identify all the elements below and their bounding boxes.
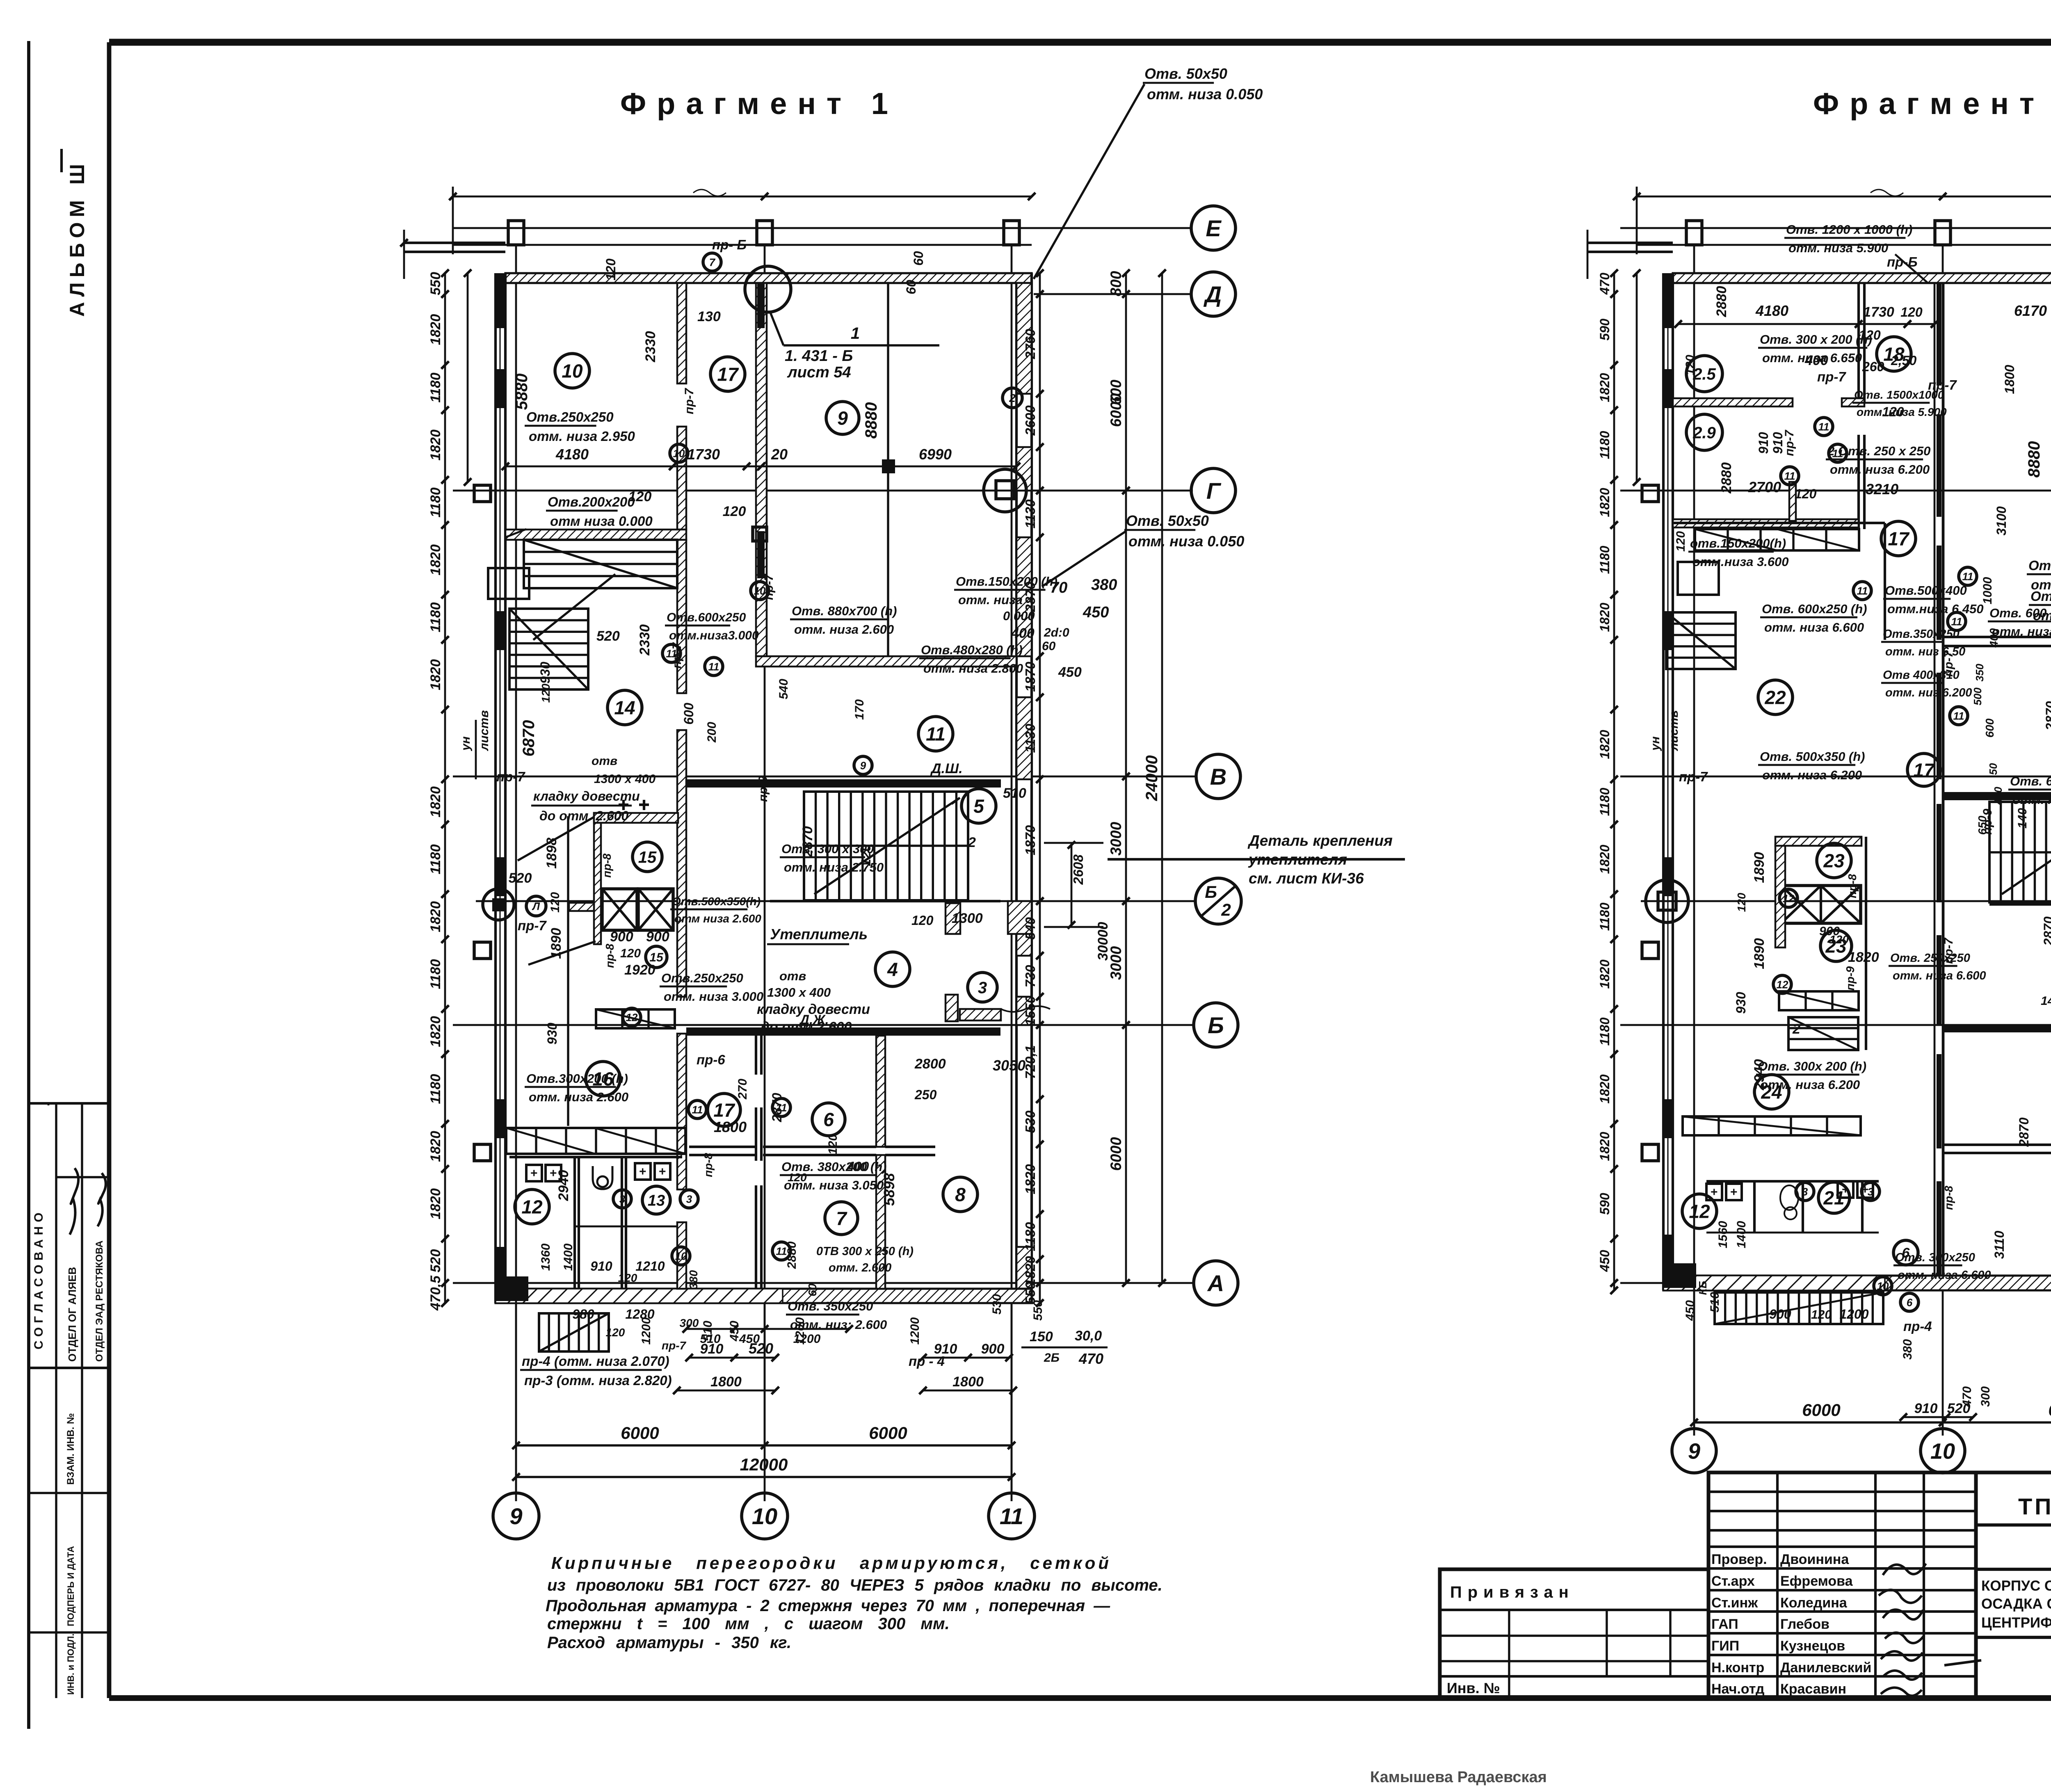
svg-text:2: 2 — [1009, 392, 1016, 404]
svg-text:1820: 1820 — [428, 544, 443, 575]
svg-text:3: 3 — [619, 1193, 626, 1205]
svg-text:1200: 1200 — [793, 1317, 807, 1345]
svg-text:до отм. 2.600: до отм. 2.600 — [539, 808, 629, 823]
svg-text:отм. низа 5.900: отм. низа 5.900 — [1788, 241, 1888, 255]
svg-text:ОТДЕЛ ОГ АЛЯЕВ: ОТДЕЛ ОГ АЛЯЕВ — [66, 1267, 78, 1362]
svg-text:10: 10 — [562, 361, 583, 382]
svg-text:120: 120 — [1900, 305, 1923, 320]
svg-text:пр-8: пр-8 — [601, 853, 613, 878]
svg-text:1920: 1920 — [624, 962, 655, 978]
svg-text:Отв. 600х250 (h): Отв. 600х250 (h) — [1762, 602, 1867, 616]
svg-text:ун: ун — [1649, 736, 1662, 751]
svg-text:Д: Д — [1204, 281, 1222, 307]
svg-text:2: 2 — [968, 835, 976, 850]
svg-text:1820: 1820 — [428, 1016, 443, 1047]
svg-text:530: 530 — [990, 1294, 1004, 1315]
svg-text:отм. низа: отм. низа — [958, 593, 1023, 607]
svg-text:Отв. 300 х 200 (h): Отв. 300 х 200 (h) — [1760, 332, 1872, 347]
svg-text:Отв. 250х250: Отв. 250х250 — [1890, 952, 1970, 965]
svg-text:отм.низа 6.450: отм.низа 6.450 — [1887, 602, 1984, 616]
svg-text:520: 520 — [509, 870, 532, 886]
svg-text:1820: 1820 — [428, 314, 443, 345]
svg-text:6000: 6000 — [1108, 393, 1124, 427]
svg-text:Отв. 50х50: Отв. 50х50 — [1144, 65, 1227, 82]
svg-text:Отв.300х200 (h): Отв.300х200 (h) — [526, 1071, 628, 1086]
svg-text:1400: 1400 — [562, 1243, 575, 1271]
svg-text:Ст.арх: Ст.арх — [1711, 1573, 1755, 1589]
svg-text:Отв.200х200: Отв.200х200 — [548, 494, 635, 509]
svg-text:утеплителя: утеплителя — [1248, 851, 1347, 868]
svg-text:4180: 4180 — [555, 446, 589, 463]
svg-text:380: 380 — [1901, 1339, 1914, 1360]
svg-text:980: 980 — [572, 1307, 594, 1322]
svg-text:1820: 1820 — [1597, 730, 1612, 759]
svg-text:120: 120 — [618, 1272, 637, 1284]
svg-text:пр-7: пр-7 — [762, 573, 776, 600]
svg-text:отм низа 0.000: отм низа 0.000 — [550, 514, 653, 529]
svg-text:540: 540 — [777, 679, 790, 699]
svg-text:пр-7: пр-7 — [683, 388, 696, 414]
svg-text:3: 3 — [1868, 1185, 1874, 1198]
svg-text:1820: 1820 — [428, 786, 443, 817]
svg-text:540: 540 — [1023, 917, 1038, 940]
svg-text:лист 54: лист 54 — [787, 364, 851, 381]
svg-text:отм. низа 0.050: отм. низа 0.050 — [1128, 533, 1244, 550]
svg-text:КБ: КБ — [1697, 1281, 1709, 1295]
svg-text:300: 300 — [1979, 1386, 1992, 1407]
svg-text:1200: 1200 — [1839, 1307, 1868, 1322]
svg-text:отм. низа 2.950: отм. низа 2.950 — [529, 429, 635, 444]
svg-text:Деталь крепления: Деталь крепления — [1247, 832, 1393, 849]
svg-text:2870: 2870 — [2043, 701, 2051, 730]
svg-text:6: 6 — [1907, 1296, 1913, 1308]
svg-text:Отв. 300х 200 (h): Отв. 300х 200 (h) — [1758, 1059, 1866, 1073]
svg-text:стержни t = 100 мм , с шагом 3: стержни t = 100 мм , с шагом 300 мм. — [547, 1615, 950, 1633]
svg-text:2,50: 2,50 — [1891, 353, 1916, 368]
svg-text:910: 910 — [1914, 1401, 1938, 1416]
svg-text:14: 14 — [614, 697, 635, 719]
svg-text:1870: 1870 — [1023, 662, 1038, 692]
svg-text:Отв.480х280 (h): Отв.480х280 (h) — [921, 643, 1023, 657]
svg-text:22: 22 — [1764, 687, 1786, 708]
svg-text:отм. низа 0.050: отм. низа 0.050 — [1147, 86, 1263, 103]
svg-text:1820: 1820 — [1597, 373, 1612, 402]
svg-text:отм. низа 6.550: отм. низа 6.550 — [1992, 624, 2051, 639]
svg-text:6000: 6000 — [2048, 1400, 2051, 1420]
svg-text:1000: 1000 — [1981, 577, 1994, 604]
svg-text:1180: 1180 — [428, 487, 443, 517]
svg-text:1890: 1890 — [1752, 938, 1767, 969]
svg-text:2870: 2870 — [800, 826, 815, 858]
svg-text:отм. низа 6.200: отм. низа 6.200 — [1762, 768, 1862, 782]
svg-text:пр-8: пр-8 — [702, 1153, 715, 1177]
svg-text:1180: 1180 — [1597, 431, 1612, 459]
svg-text:Е: Е — [1206, 215, 1222, 241]
svg-text:Отв.500х400: Отв.500х400 — [1885, 583, 1967, 598]
svg-text:Утеплитель: Утеплитель — [770, 926, 868, 943]
svg-text:450: 450 — [1597, 1250, 1612, 1272]
svg-text:1800: 1800 — [952, 1374, 984, 1390]
svg-text:4180: 4180 — [1755, 302, 1788, 319]
svg-text:13: 13 — [648, 1192, 665, 1210]
svg-text:120: 120 — [1795, 486, 1817, 501]
svg-text:1820: 1820 — [1023, 1256, 1038, 1286]
svg-text:120: 120 — [548, 892, 562, 913]
svg-text:пр-7: пр-7 — [518, 918, 547, 933]
svg-text:пр-8: пр-8 — [603, 943, 616, 968]
svg-text:листв: листв — [477, 710, 491, 751]
svg-text:20: 20 — [771, 446, 788, 463]
svg-text:1800: 1800 — [2002, 365, 2017, 394]
svg-text:150: 150 — [1030, 1329, 1053, 1345]
svg-text:2870: 2870 — [770, 1093, 784, 1122]
svg-text:720,1: 720,1 — [1023, 1045, 1038, 1079]
svg-text:пр-7: пр-7 — [662, 1339, 687, 1352]
svg-text:отм низа 2.600: отм низа 2.600 — [674, 912, 761, 925]
svg-text:2.9: 2.9 — [1692, 424, 1716, 442]
svg-text:1200: 1200 — [908, 1317, 922, 1345]
svg-text:Отв.600х250: Отв.600х250 — [667, 611, 746, 624]
svg-text:1870: 1870 — [1023, 825, 1038, 855]
svg-text:400: 400 — [1987, 628, 2000, 648]
svg-text:пр-6: пр-6 — [697, 1052, 725, 1067]
svg-text:пр-7: пр-7 — [1679, 769, 1708, 784]
svg-text:отм. низа 6.200: отм. низа 6.200 — [1830, 462, 1930, 477]
svg-text:Отв.250х250: Отв.250х250 — [661, 971, 743, 985]
svg-text:17: 17 — [1888, 528, 1910, 550]
svg-text:350: 350 — [1973, 664, 1986, 682]
svg-text:1180: 1180 — [428, 372, 443, 402]
svg-text:1300 х 400: 1300 х 400 — [594, 772, 655, 786]
svg-text:5: 5 — [973, 796, 984, 817]
svg-text:2880: 2880 — [785, 1241, 799, 1269]
svg-text:пр-8: пр-8 — [1846, 874, 1859, 898]
svg-text:120: 120 — [1683, 355, 1697, 375]
svg-text:1820: 1820 — [1597, 603, 1612, 632]
svg-text:1800: 1800 — [714, 1119, 747, 1135]
svg-text:1560: 1560 — [1716, 1221, 1730, 1248]
svg-text:+: + — [1711, 1185, 1718, 1199]
svg-text:1130: 1130 — [1023, 724, 1038, 753]
svg-text:1820: 1820 — [428, 1131, 443, 1162]
svg-text:Отв. 350х250: Отв. 350х250 — [788, 1299, 873, 1313]
svg-text:10: 10 — [673, 447, 685, 459]
svg-text:1898: 1898 — [544, 838, 560, 869]
svg-text:3: 3 — [1802, 1185, 1808, 1198]
svg-text:1180: 1180 — [1597, 1017, 1612, 1046]
svg-text:отм. низа 6.500: отм. низа 6.500 — [2012, 792, 2051, 807]
svg-text:ПОДПЕРЬ И ДАТА: ПОДПЕРЬ И ДАТА — [66, 1546, 76, 1626]
svg-text:Б: Б — [1205, 882, 1217, 902]
svg-text:Отв.500х350(h): Отв.500х350(h) — [672, 895, 761, 908]
svg-text:Данилевский: Данилевский — [1780, 1660, 1871, 1676]
svg-text:900: 900 — [1819, 925, 1840, 938]
svg-text:120: 120 — [1674, 531, 1688, 552]
svg-text:отм. низа 6.200: отм. низа 6.200 — [1760, 1077, 1860, 1092]
svg-text:11: 11 — [1784, 470, 1795, 482]
svg-text:1: 1 — [851, 324, 860, 342]
svg-text:Б: Б — [1208, 1012, 1224, 1038]
svg-text:пр-3 (отм. низа 2.820): пр-3 (отм. низа 2.820) — [524, 1373, 672, 1388]
svg-text:2800: 2800 — [914, 1056, 946, 1072]
svg-text:пр-8: пр-8 — [1942, 1185, 1955, 1210]
svg-text:2880: 2880 — [1714, 286, 1729, 317]
svg-text:590: 590 — [1597, 1193, 1612, 1215]
svg-text:Камышева Радаевская: Камышева Радаевская — [1370, 1769, 1547, 1786]
svg-text:Фрагмент 1: Фрагмент 1 — [620, 87, 899, 121]
svg-text:Отв.350х250: Отв.350х250 — [1883, 628, 1960, 641]
svg-text:Инв. №: Инв. № — [1447, 1680, 1500, 1696]
svg-text:Расход арматуры - 350 кг.: Расход арматуры - 350 кг. — [547, 1634, 791, 1652]
svg-text:600: 600 — [681, 703, 696, 725]
svg-text:930: 930 — [538, 662, 553, 684]
svg-text:Кузнецов: Кузнецов — [1780, 1638, 1845, 1654]
svg-text:3000: 3000 — [1108, 822, 1124, 856]
svg-text:+: + — [1730, 1185, 1738, 1199]
svg-text:7: 7 — [709, 256, 716, 268]
svg-text:140: 140 — [2016, 808, 2029, 829]
svg-text:12: 12 — [1783, 892, 1795, 904]
svg-text:2940: 2940 — [556, 1170, 571, 1201]
svg-text:2880: 2880 — [1719, 462, 1734, 494]
svg-text:листв: листв — [1667, 710, 1681, 751]
svg-text:отм. 2.600: отм. 2.600 — [829, 1261, 891, 1274]
svg-text:6990: 6990 — [919, 446, 952, 463]
svg-text:400: 400 — [1992, 787, 2004, 805]
svg-text:1180: 1180 — [428, 844, 443, 874]
svg-text:отм. низа 2.600: отм. низа 2.600 — [794, 622, 894, 637]
svg-text:ОТДЕЛ ЭАД РЕСТЯКОВА: ОТДЕЛ ЭАД РЕСТЯКОВА — [94, 1240, 105, 1362]
svg-text:Привязан: Привязан — [1450, 1583, 1574, 1601]
svg-text:500: 500 — [1971, 687, 1984, 705]
svg-text:17: 17 — [713, 1100, 735, 1121]
svg-text:60: 60 — [904, 280, 918, 294]
svg-text:600: 600 — [1983, 718, 1996, 737]
svg-text:250: 250 — [914, 1087, 937, 1102]
svg-text:3: 3 — [978, 979, 987, 997]
svg-text:0ТВ 300 х 250 (h): 0ТВ 300 х 250 (h) — [816, 1245, 914, 1258]
svg-text:6000: 6000 — [1802, 1400, 1840, 1420]
svg-text:11: 11 — [1857, 584, 1868, 597]
svg-text:Коледина: Коледина — [1780, 1595, 1848, 1611]
svg-text:24000: 24000 — [1143, 755, 1161, 801]
svg-text:17: 17 — [717, 364, 739, 385]
svg-text:470: 470 — [1960, 1386, 1974, 1407]
svg-text:1730: 1730 — [687, 446, 720, 463]
svg-text:Отв. 500х350 (h): Отв. 500х350 (h) — [1760, 749, 1865, 764]
svg-text:2600: 2600 — [1023, 405, 1038, 436]
svg-text:6000: 6000 — [621, 1423, 659, 1443]
svg-text:1820: 1820 — [1597, 959, 1612, 988]
svg-text:270: 270 — [736, 1079, 749, 1100]
svg-text:пр-7: пр-7 — [496, 769, 525, 784]
svg-text:отв.150х200(h): отв.150х200(h) — [1690, 536, 1786, 550]
svg-text:отм. низа 2.800: отм. низа 2.800 — [923, 661, 1023, 676]
svg-text:1180: 1180 — [428, 1074, 443, 1104]
svg-text:550: 550 — [1023, 1281, 1038, 1304]
svg-text:Глебов: Глебов — [1780, 1616, 1829, 1632]
svg-text:отм. низа 6.600: отм. низа 6.600 — [1898, 1269, 1991, 1282]
svg-text:пр-7: пр-7 — [1942, 937, 1955, 964]
svg-text:11: 11 — [1962, 570, 1973, 582]
svg-text:ун: ун — [459, 736, 473, 751]
svg-text:510: 510 — [1003, 785, 1026, 801]
svg-text:Отв. 400 х 200 (h): Отв. 400 х 200 (h) — [2030, 589, 2051, 604]
svg-text:910: 910 — [934, 1341, 957, 1357]
svg-text:8: 8 — [955, 1184, 966, 1205]
svg-text:пр-4: пр-4 — [1903, 1319, 1932, 1334]
svg-text:2760: 2760 — [1023, 329, 1038, 359]
svg-text:200: 200 — [705, 722, 719, 743]
svg-text:3: 3 — [686, 1193, 692, 1205]
svg-text:450: 450 — [1083, 604, 1109, 621]
svg-text:отм. низ 6.200: отм. низ 6.200 — [1885, 686, 1972, 699]
svg-text:12: 12 — [1689, 1201, 1710, 1222]
svg-text:из проволоки 5В1 ГОСТ 6727- 80: из проволоки 5В1 ГОСТ 6727- 80 ЧЕРЕЗ 5 р… — [547, 1576, 1163, 1594]
svg-text:В: В — [1210, 764, 1226, 790]
svg-text:9: 9 — [509, 1503, 522, 1529]
svg-text:11: 11 — [708, 660, 719, 673]
svg-text:1890: 1890 — [548, 928, 564, 959]
svg-text:1130: 1130 — [1023, 499, 1038, 529]
svg-text:11: 11 — [1951, 615, 1962, 628]
svg-text:800: 800 — [1108, 271, 1124, 296]
svg-text:ГАП: ГАП — [1711, 1616, 1738, 1632]
svg-text:1180: 1180 — [1597, 902, 1612, 931]
svg-text:130: 130 — [697, 309, 721, 324]
svg-text:120: 120 — [1811, 1308, 1832, 1322]
svg-text:6: 6 — [823, 1109, 834, 1130]
svg-text:Л: Л — [532, 900, 540, 912]
svg-text:8880: 8880 — [862, 402, 880, 439]
svg-text:470: 470 — [1597, 273, 1612, 295]
svg-text:1180: 1180 — [1597, 546, 1612, 574]
svg-text:отм.низа3.000: отм.низа3.000 — [669, 629, 759, 642]
svg-text:900: 900 — [646, 929, 669, 945]
svg-text:отм. низа 6.600: отм. низа 6.600 — [1764, 620, 1864, 635]
svg-text:11: 11 — [1953, 710, 1964, 722]
svg-text:пр-Б: пр-Б — [1887, 254, 1918, 269]
svg-text:см. лист КИ-36: см. лист КИ-36 — [1249, 870, 1364, 887]
svg-text:отв: отв — [592, 754, 617, 768]
svg-text:1890: 1890 — [1752, 852, 1767, 883]
svg-text:Отв.250х250: Отв.250х250 — [526, 409, 614, 425]
svg-text:9: 9 — [1688, 1439, 1700, 1463]
svg-text:ОСАДКА СТОЧНЫХ ВОД С 5: ОСАДКА СТОЧНЫХ ВОД С 5 — [1981, 1596, 2051, 1612]
svg-text:Отв. 300 х 250 (h): Отв. 300 х 250 (h) — [2028, 558, 2051, 573]
svg-text:Отв. 880х700 (h): Отв. 880х700 (h) — [792, 604, 897, 618]
svg-text:900: 900 — [610, 929, 633, 945]
svg-text:пр- Б: пр- Б — [712, 237, 747, 252]
svg-text:Кирпичные перегородки армируют: Кирпичные перегородки армируются, сеткой — [551, 1553, 1112, 1573]
svg-text:1800: 1800 — [710, 1374, 742, 1390]
svg-text:3100: 3100 — [1994, 506, 2009, 535]
svg-text:пр-7: пр-7 — [1942, 650, 1955, 677]
svg-text:пр-7: пр-7 — [670, 642, 684, 669]
svg-text:450: 450 — [1058, 664, 1082, 680]
svg-text:2870: 2870 — [2041, 916, 2051, 946]
svg-text:1210: 1210 — [635, 1259, 665, 1274]
svg-text:ЦЕНТРИФУГАМИ ОГШ -1001 К - 01: ЦЕНТРИФУГАМИ ОГШ -1001 К - 01 — [1981, 1615, 2051, 1631]
svg-text:1200: 1200 — [640, 1317, 653, 1345]
svg-text:910: 910 — [700, 1341, 724, 1357]
svg-text:2: 2 — [1221, 900, 1231, 920]
svg-text:пр-4 (отм. низа 2.070): пр-4 (отм. низа 2.070) — [522, 1354, 669, 1369]
svg-text:1400: 1400 — [1735, 1221, 1748, 1248]
svg-text:400: 400 — [847, 1159, 869, 1174]
svg-text:2: 2 — [1792, 1021, 1800, 1037]
svg-text:590: 590 — [1597, 319, 1612, 341]
svg-text:910: 910 — [590, 1259, 612, 1274]
svg-text:12: 12 — [1777, 978, 1788, 991]
svg-text:6000: 6000 — [1108, 1137, 1124, 1171]
svg-text:пр-7: пр-7 — [1817, 369, 1846, 384]
svg-text:2330: 2330 — [643, 331, 658, 363]
svg-text:отм. низа 6.680: отм. низа 6.680 — [2033, 608, 2051, 623]
svg-text:10: 10 — [1930, 1439, 1955, 1463]
svg-text:+: + — [639, 1165, 646, 1178]
svg-text:550: 550 — [428, 272, 443, 295]
svg-text:кладку довести: кладку довести — [757, 1002, 870, 1017]
svg-text:до отм 2.600: до отм 2.600 — [761, 1019, 852, 1035]
svg-text:1820: 1820 — [1597, 1074, 1612, 1103]
svg-text:КОРПУС ОБЕЗВОЖИВАНИЯ: КОРПУС ОБЕЗВОЖИВАНИЯ — [1981, 1578, 2051, 1594]
svg-text:450: 450 — [728, 1321, 741, 1342]
svg-text:1550: 1550 — [1023, 995, 1038, 1026]
svg-text:ВЗАМ. ИНВ. №: ВЗАМ. ИНВ. № — [65, 1413, 76, 1485]
svg-text:520: 520 — [428, 1249, 443, 1273]
svg-text:5880: 5880 — [513, 374, 531, 410]
svg-text:260: 260 — [1862, 359, 1884, 374]
svg-text:1300: 1300 — [952, 911, 983, 926]
svg-text:11: 11 — [1000, 1503, 1023, 1529]
svg-text:520: 520 — [596, 628, 620, 644]
svg-text:отм. низа 6.600: отм. низа 6.600 — [1893, 969, 1986, 982]
svg-text:2700: 2700 — [1748, 479, 1781, 495]
svg-text:380: 380 — [687, 1270, 700, 1289]
svg-text:Ефремова: Ефремова — [1780, 1573, 1853, 1589]
svg-text:60: 60 — [806, 1283, 819, 1297]
svg-text:2 Отв. 250 х 250: 2 Отв. 250 х 250 — [1827, 444, 1930, 458]
svg-text:400: 400 — [1011, 625, 1035, 641]
svg-text:1820: 1820 — [1023, 1164, 1038, 1194]
svg-text:60: 60 — [1042, 639, 1056, 653]
svg-text:пр-9: пр-9 — [756, 776, 770, 802]
svg-text:470: 470 — [1078, 1350, 1103, 1367]
svg-text:3210: 3210 — [1866, 481, 1898, 498]
svg-text:15: 15 — [638, 848, 657, 866]
svg-text:2940: 2940 — [1752, 1059, 1767, 1091]
svg-text:21: 21 — [1823, 1187, 1844, 1209]
svg-text:ТП 902-5-47.87: ТП 902-5-47.87 — [2018, 1493, 2051, 1519]
svg-text:520: 520 — [749, 1340, 773, 1357]
svg-text:11: 11 — [692, 1103, 703, 1116]
svg-text:2d:0: 2d:0 — [1044, 626, 1069, 639]
svg-text:1180: 1180 — [1597, 788, 1612, 816]
svg-text:140: 140 — [2041, 994, 2051, 1008]
svg-text:930: 930 — [1734, 992, 1748, 1014]
svg-text:910: 910 — [1756, 432, 1771, 454]
svg-text:120: 120 — [1859, 328, 1881, 342]
svg-text:120: 120 — [1735, 893, 1748, 912]
svg-text:120: 120 — [788, 1171, 807, 1184]
svg-text:Отв. 300х250: Отв. 300х250 — [1895, 1251, 1975, 1264]
svg-text:Отв. 650 х 400 (h): Отв. 650 х 400 (h) — [2010, 774, 2051, 788]
svg-text:Отв. 1200 х 1000 (h): Отв. 1200 х 1000 (h) — [1786, 222, 1912, 237]
svg-text:6870: 6870 — [520, 720, 538, 757]
svg-text:1730: 1730 — [1863, 304, 1894, 320]
svg-text:2870: 2870 — [1023, 582, 1038, 612]
